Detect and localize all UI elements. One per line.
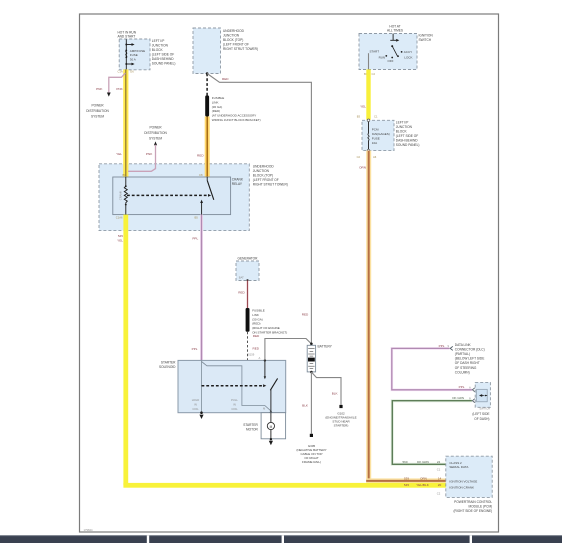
node: switch connector terminal B <box>472 399 474 403</box>
label PPL <box>459 385 471 389</box>
label RED <box>253 334 260 338</box>
node: DLC connector terminal <box>450 346 453 350</box>
label RED <box>197 154 204 158</box>
svg-text:(LEFT FRONT OF: (LEFT FRONT OF <box>253 178 279 182</box>
svg-text:C1A6: C1A6 <box>116 215 123 219</box>
svg-text:YEL: YEL <box>360 105 366 109</box>
wire: bus inside fuse block <box>125 39 127 69</box>
svg-text:LEFT I/P: LEFT I/P <box>396 120 409 124</box>
svg-text:(PARTIAL): (PARTIAL) <box>455 352 470 356</box>
svg-text:545: 545 <box>404 483 409 487</box>
svg-text:SYSTEM: SYSTEM <box>149 136 162 140</box>
labels on green wire at PCM <box>402 460 440 464</box>
wire: ignition switch feed <box>390 34 399 42</box>
svg-text:FRAME RAIL): FRAME RAIL) <box>302 460 321 464</box>
svg-text:MOTOR: MOTOR <box>246 428 259 432</box>
svg-text:C1: C1 <box>437 467 441 471</box>
svg-text:MODULE (PCM): MODULE (PCM) <box>468 504 492 508</box>
label: PCM inputs <box>449 461 477 490</box>
switch: solenoid contact blade <box>270 378 277 390</box>
wire: yellow YEL from fuse block to crank relay <box>123 69 128 177</box>
svg-text:RELAY: RELAY <box>232 182 243 186</box>
label PPL <box>192 347 198 351</box>
svg-text:OFF: OFF <box>388 59 394 63</box>
node: BAT terminal <box>246 279 248 281</box>
svg-text:SWITCH: SWITCH <box>419 38 432 42</box>
node: OFF contact <box>388 57 394 63</box>
label YEL on yellow wire <box>116 152 122 156</box>
label PNK <box>146 152 153 156</box>
svg-text:POWER: POWER <box>91 104 104 108</box>
svg-text:IGNITION VOLTAGE: IGNITION VOLTAGE <box>449 479 477 483</box>
svg-text:(LEFT SIDE OF: (LEFT SIDE OF <box>152 52 174 56</box>
label BLK <box>302 404 309 408</box>
svg-text:SOLENOID: SOLENOID <box>159 365 176 369</box>
node: HOT AT ALL TIMES label <box>387 25 403 33</box>
svg-text:PNK: PNK <box>116 87 123 91</box>
svg-text:(BELOW LEFT SIDE: (BELOW LEFT SIDE <box>455 357 485 361</box>
svg-text:30 A: 30 A <box>130 58 136 62</box>
svg-text:(LEFT FRONT OF: (LEFT FRONT OF <box>223 43 249 47</box>
svg-text:IGNITION: IGNITION <box>419 34 434 38</box>
switch: ignition rotor arm <box>391 45 397 56</box>
svg-text:JUNCTION: JUNCTION <box>253 169 270 173</box>
svg-text:STARTER): STARTER) <box>334 424 349 428</box>
junction block: underhood junction block top (dashed box) <box>193 28 221 74</box>
label PNK <box>96 87 103 91</box>
svg-text:LINK: LINK <box>252 313 259 317</box>
fusible link A <box>205 96 209 117</box>
svg-text:RUN: RUN <box>379 56 386 60</box>
label: pull-in coil <box>231 398 238 411</box>
page border <box>80 14 499 532</box>
node: junction at block bottom <box>206 72 209 75</box>
svg-text:IN: IN <box>194 403 197 407</box>
svg-text:BLOCK: BLOCK <box>152 48 164 52</box>
svg-text:SWITCH: SWITCH <box>479 406 490 410</box>
labels 545 YEL <box>117 234 123 243</box>
svg-text:M: M <box>270 425 273 429</box>
node: battery feed into solenoid <box>264 359 266 361</box>
wire: dark green DK GRN clutch switch to PCM <box>392 401 472 465</box>
wire: yellow YEL crank relay to PCM (down and across page bottom) <box>123 215 446 488</box>
svg-text:PPL: PPL <box>439 344 445 348</box>
label: crank relay <box>232 178 244 186</box>
svg-text:539: 539 <box>404 476 409 480</box>
svg-text:C2: C2 <box>437 491 441 495</box>
wire: pink jumper to relay coil feed <box>128 145 156 172</box>
wire: purple PPL crank relay to starter solenoid <box>200 215 203 361</box>
node: RUN contact <box>379 55 388 60</box>
label PNK <box>116 87 123 91</box>
wire: purple PPL to data link connector <box>392 348 472 389</box>
switch: clutch start contact <box>479 394 487 397</box>
svg-text:JUNCTION: JUNCTION <box>396 125 413 129</box>
node: battery positive junction <box>310 343 313 346</box>
svg-text:UNDERHOOD: UNDERHOOD <box>253 165 275 169</box>
svg-text:STARTER: STARTER <box>161 360 176 364</box>
svg-text:B5: B5 <box>195 215 199 219</box>
label: starter solenoid <box>159 360 176 369</box>
svg-text:LOCK: LOCK <box>404 56 412 60</box>
svg-text:179844: 179844 <box>84 528 93 532</box>
label: battery <box>318 344 333 348</box>
svg-text:DK GRN: DK GRN <box>417 460 429 464</box>
svg-text:FUSE: FUSE <box>372 136 380 140</box>
svg-text:CRANK: CRANK <box>118 191 122 201</box>
svg-text:OF STEERING: OF STEERING <box>455 366 477 370</box>
svg-text:C2: C2 <box>372 72 376 76</box>
svg-text:ACCY: ACCY <box>404 50 412 54</box>
svg-text:PPL: PPL <box>192 347 198 351</box>
labels on yellow wire at PCM <box>404 483 442 487</box>
node: motor feed junction <box>270 411 273 414</box>
label RED <box>253 347 260 351</box>
svg-text:POWER: POWER <box>149 126 162 130</box>
svg-text:HOLD: HOLD <box>192 398 200 402</box>
svg-text:IN: IN <box>233 403 236 407</box>
svg-text:RED: RED <box>302 313 309 317</box>
svg-text:JUNCTION: JUNCTION <box>152 43 169 47</box>
svg-text:10A: 10A <box>372 141 377 145</box>
svg-text:SOUND PANEL): SOUND PANEL) <box>396 143 420 147</box>
switch: relay contact <box>200 177 214 215</box>
svg-text:BLK: BLK <box>332 392 339 396</box>
svg-text:FUSIBLE: FUSIBLE <box>252 309 265 313</box>
label PPL <box>439 344 450 348</box>
node: HOT IN RUN AND START label <box>118 31 137 39</box>
svg-text:OF DASH): OF DASH) <box>474 417 489 421</box>
label YEL <box>360 105 366 109</box>
svg-text:(RIGHT OF ENGINE: (RIGHT OF ENGINE <box>252 326 280 330</box>
pin labels relay bottom <box>116 215 199 219</box>
label: powertrain control module <box>453 500 492 513</box>
label: power distribution system (left) <box>86 104 109 119</box>
wire: battery negative to G305 <box>310 372 312 434</box>
label PPL <box>192 237 198 241</box>
svg-text:SOUND PANEL): SOUND PANEL) <box>152 61 176 65</box>
svg-text:S159: S159 <box>248 353 255 357</box>
label DK GRN <box>452 396 471 400</box>
wire: contact to motor terminal <box>263 390 271 413</box>
svg-text:(30 GA): (30 GA) <box>212 105 223 109</box>
wire: battery feed to contact <box>264 360 266 379</box>
pin labels above fuse box <box>357 114 378 118</box>
svg-text:GENERATOR: GENERATOR <box>238 257 259 261</box>
splice label above solenoid <box>248 353 261 360</box>
svg-text:COIL: COIL <box>231 407 238 411</box>
label: left I/P junction block <box>152 39 176 66</box>
node: hold-in coil ground <box>199 411 203 419</box>
svg-text:(AT UNDERHOOD ACCESSORY: (AT UNDERHOOD ACCESSORY <box>212 114 257 118</box>
svg-text:COLUMN): COLUMN) <box>455 370 470 374</box>
svg-text:A6: A6 <box>373 155 377 159</box>
svg-text:YEL/BLK: YEL/BLK <box>416 483 429 487</box>
fuse F1: IGN fuse 30A <box>125 49 145 62</box>
node: arrow to power distribution system <box>107 93 111 97</box>
svg-text:PNK: PNK <box>146 152 153 156</box>
wire: hold-in coil path <box>201 360 203 412</box>
node: arrow up to power distribution <box>154 141 157 145</box>
svg-text:RED: RED <box>253 347 260 351</box>
svg-text:STARTER: STARTER <box>243 423 258 427</box>
label: generator <box>238 257 259 261</box>
svg-text:(LEFT SIDE OF: (LEFT SIDE OF <box>396 134 418 138</box>
svg-text:PULL: PULL <box>231 398 238 402</box>
svg-text:IGNITION CRANK: IGNITION CRANK <box>449 486 474 490</box>
svg-text:RED: RED <box>238 291 245 295</box>
svg-text:(30 GA): (30 GA) <box>252 317 263 321</box>
svg-text:560: 560 <box>402 460 407 464</box>
node: lower tap with arrow <box>125 63 134 66</box>
svg-text:A: A <box>469 385 471 389</box>
node: terminal ring bottom <box>367 149 370 152</box>
fuse block: left I/P junction block (PCM IGN fuse, dashed box) <box>362 120 394 150</box>
pin labels relay top <box>123 173 203 177</box>
label RED <box>238 291 245 295</box>
label: G305 <box>296 444 326 464</box>
svg-text:IGN(GAGES): IGN(GAGES) <box>372 132 390 136</box>
junction block: underhood junction block top containing crank relay (dashed box) <box>99 164 249 231</box>
pin labels below fuse block <box>118 69 135 73</box>
node: switch connector terminal A <box>472 388 474 392</box>
relay coil <box>118 177 127 215</box>
svg-text:JUNCTION: JUNCTION <box>223 34 240 38</box>
ground G102 <box>339 405 342 408</box>
clutch start switch inner box <box>477 389 488 402</box>
svg-text:C1: C1 <box>374 114 378 118</box>
wire: battery negative branch to G102 <box>311 372 341 405</box>
svg-text:POWERTRAIN CONTROL: POWERTRAIN CONTROL <box>454 500 492 504</box>
svg-text:D6: D6 <box>130 69 134 73</box>
pin label BAT <box>239 275 244 279</box>
svg-text:BLOCK (TOP): BLOCK (TOP) <box>223 38 243 42</box>
label: clutch start switch <box>472 406 490 421</box>
wire: gold RED wire from fusible link to crank relay <box>205 117 210 178</box>
ground G305 <box>310 434 313 437</box>
relay K1: crank relay (inner box) <box>113 177 231 215</box>
label BLK <box>332 392 339 396</box>
fuse block: left I/P junction block (dashed box) <box>119 39 150 70</box>
taskbar <box>0 535 562 543</box>
svg-text:ALL TIMES: ALL TIMES <box>387 29 403 33</box>
wire: gray RED feed to battery positive <box>207 74 311 344</box>
label: underhood junction block <box>253 165 288 187</box>
svg-text:DATA LINK: DATA LINK <box>455 343 472 347</box>
wire: orange ORN from PCM IGN fuse to PCM <box>366 151 446 484</box>
clutch start switch (dashed box) <box>475 382 490 407</box>
label: power distribution system (middle) <box>144 126 167 141</box>
svg-text:PPL: PPL <box>192 237 198 241</box>
svg-text:BATTERY: BATTERY <box>318 344 333 348</box>
svg-text:24: 24 <box>437 460 441 464</box>
svg-text:(RED): (RED) <box>212 109 220 113</box>
svg-text:COIL: COIL <box>192 407 199 411</box>
motor symbol <box>267 413 274 440</box>
PCM (dashed box) <box>446 456 492 497</box>
svg-text:AND START: AND START <box>118 35 136 39</box>
node: ACCY contact <box>401 50 412 54</box>
wire: battery positive jumper to solenoid <box>265 339 312 361</box>
label: starter motor <box>243 423 258 432</box>
svg-text:DISTRIBUTION: DISTRIBUTION <box>144 131 167 135</box>
svg-text:RIGHT STRUT TOWER): RIGHT STRUT TOWER) <box>223 47 258 51</box>
fusible link B <box>246 308 250 332</box>
svg-text:545: 545 <box>118 234 123 238</box>
node: terminal ring top <box>367 119 370 122</box>
label: data link connector <box>455 343 485 375</box>
svg-text:A: A <box>259 356 261 360</box>
svg-text:LEFT I/P: LEFT I/P <box>152 39 165 43</box>
wire: black lead to fusible link A <box>206 74 208 96</box>
svg-text:PNK: PNK <box>96 87 103 91</box>
svg-text:ORN: ORN <box>359 166 366 170</box>
svg-text:PCM: PCM <box>372 128 379 132</box>
node: battery negative junction <box>310 371 313 374</box>
svg-text:B6: B6 <box>123 173 127 177</box>
label: ignition switch <box>419 34 434 43</box>
node: starter motor ground <box>269 438 273 445</box>
wire: solenoid control dashed line <box>202 384 267 387</box>
label ORN <box>359 166 366 170</box>
node: upper tap with arrow <box>125 43 134 46</box>
wire: red RED generator to fusible link B <box>246 281 249 309</box>
svg-text:RED: RED <box>197 154 204 158</box>
node: LOCK contact <box>397 55 412 59</box>
svg-text:CONNECTOR (DLC): CONNECTOR (DLC) <box>455 347 485 351</box>
svg-text:OF DASH RIGHT: OF DASH RIGHT <box>455 361 480 365</box>
wire: yellow YEL ignition switch to PCM IGN fuse <box>366 69 370 119</box>
pin labels below ignition switch <box>364 72 375 76</box>
svg-text:LINK: LINK <box>212 100 219 104</box>
svg-text:START: START <box>370 49 380 53</box>
ignition switch S1 (dashed box) <box>359 34 417 70</box>
starter solenoid (solid box) <box>178 360 286 412</box>
fuse F2: PCM IGN fuse 10A <box>368 122 390 150</box>
svg-text:YEL: YEL <box>117 239 123 243</box>
svg-text:C1A: C1A <box>118 69 123 73</box>
svg-text:(LEFT SIDE: (LEFT SIDE <box>472 412 489 416</box>
labels on orange wire at PCM <box>404 476 442 480</box>
pin labels below fuse box <box>357 155 377 159</box>
label: G102 <box>325 412 356 428</box>
svg-text:SYSTEM: SYSTEM <box>91 114 104 118</box>
svg-text:C2: C2 <box>357 155 361 159</box>
label: fusible link B <box>252 309 287 335</box>
svg-text:SERIAL DATA: SERIAL DATA <box>449 465 468 469</box>
PCM connector terminals <box>446 462 448 487</box>
svg-text:BLOCK (TOP): BLOCK (TOP) <box>253 174 273 178</box>
svg-text:UNDERHOOD: UNDERHOOD <box>223 29 245 33</box>
starter motor M1 (box) <box>261 413 286 439</box>
svg-text:RED: RED <box>222 77 229 81</box>
svg-text:PPL: PPL <box>459 385 465 389</box>
svg-text:DASH BEHIND: DASH BEHIND <box>152 57 174 61</box>
svg-text:20: 20 <box>438 483 442 487</box>
wire: pull-in coil path <box>202 362 271 413</box>
svg-text:DASH BEHIND: DASH BEHIND <box>396 138 418 142</box>
node: START contact <box>369 49 380 69</box>
label: fusible link A <box>212 96 261 122</box>
svg-text:B3: B3 <box>357 114 361 118</box>
label RED <box>302 313 309 317</box>
svg-text:FUSIBLE: FUSIBLE <box>212 96 225 100</box>
svg-text:DISTRIBUTION: DISTRIBUTION <box>86 109 109 113</box>
svg-text:RED: RED <box>253 334 260 338</box>
label: hold-in coil <box>192 398 200 411</box>
wire: relay control dashed line <box>127 194 211 197</box>
svg-text:14: 14 <box>438 476 442 480</box>
svg-text:BAT: BAT <box>239 275 244 279</box>
svg-text:RIGHT STRUT TOWER): RIGHT STRUT TOWER) <box>253 183 288 187</box>
wire: pink branch to power distribution <box>109 73 126 93</box>
label: underhood junction block <box>223 29 258 51</box>
battery B1 <box>307 345 315 372</box>
svg-text:C8: C8 <box>199 173 203 177</box>
generator G1 (dashed box) <box>236 261 259 281</box>
svg-text:FUSE: FUSE <box>130 53 138 57</box>
svg-text:(RIGHT SIDE OF ENGINE): (RIGHT SIDE OF ENGINE) <box>453 509 492 513</box>
svg-text:YEL: YEL <box>116 152 122 156</box>
svg-text:ORN: ORN <box>420 476 427 480</box>
svg-text:WIRING JUNCT BLOCK BRACKET): WIRING JUNCT BLOCK BRACKET) <box>212 118 261 122</box>
svg-text:(RED): (RED) <box>252 322 260 326</box>
pin labels C1 C2 <box>437 467 441 495</box>
label: left I/P junction block <box>396 120 420 147</box>
footer page number <box>84 528 93 532</box>
svg-text:BLK: BLK <box>302 404 309 408</box>
label RED <box>222 77 229 81</box>
wire: dashed red lead to solenoid B terminal <box>247 332 249 361</box>
svg-text:BLOCK: BLOCK <box>396 129 408 133</box>
